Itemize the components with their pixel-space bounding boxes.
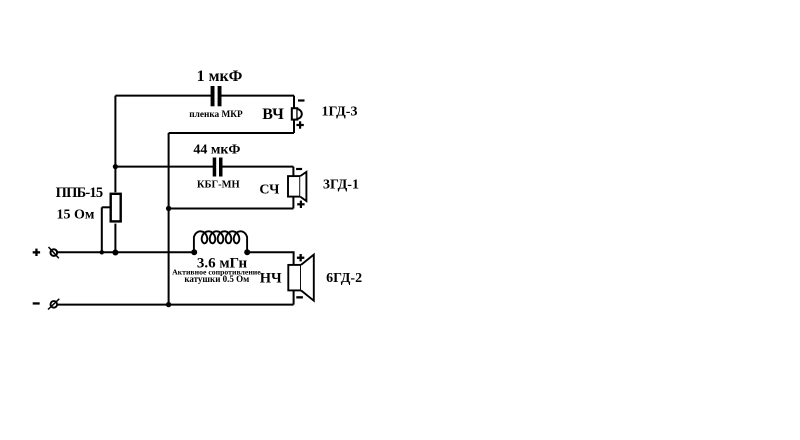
plus sign input (33, 249, 40, 256)
wiper vertical lead (101, 207, 103, 252)
tweeter minus sign (298, 99, 305, 101)
wire plus rail right (247, 252, 293, 265)
wire mid drop (292, 167, 294, 177)
minus terminal (48, 299, 59, 310)
node dot row1/row2 junction (113, 164, 118, 169)
inductor L1 coil (194, 231, 247, 252)
node dot coil right (244, 249, 250, 255)
svg-text:КБГ-МН: КБГ-МН (197, 180, 240, 191)
svg-text:44 мкФ: 44 мкФ (193, 143, 240, 158)
resistor R1 PPB-15 body (111, 194, 121, 222)
mid plus sign (297, 201, 304, 208)
svg-text:НЧ: НЧ (260, 271, 282, 287)
wire left vertical (row1 to resistor top) (114, 96, 116, 193)
svg-text:3ГД-1: 3ГД-1 (323, 178, 359, 193)
wire mid bottom (292, 197, 294, 209)
woofer NCh symbol (288, 255, 314, 301)
capacitor C1 1mkF plates (211, 86, 222, 106)
mid minus sign (296, 168, 302, 170)
svg-text:1ГД-3: 1ГД-3 (322, 105, 358, 120)
node dot bus/minus rail (166, 302, 171, 307)
wiper tick (102, 206, 110, 208)
wire bus vertical (168, 133, 170, 305)
woofer plus sign (297, 254, 304, 261)
node dot resistor lead/plus rail (112, 250, 118, 256)
node dot wiper/plus rail (100, 250, 104, 254)
plus terminal (49, 247, 59, 258)
svg-text:ВЧ: ВЧ (262, 106, 284, 123)
midrange SCh symbol (288, 172, 306, 201)
svg-text:6ГД-2: 6ГД-2 (326, 271, 362, 286)
wire tweeter bottom (293, 120, 295, 133)
svg-text:ППБ-15: ППБ-15 (56, 185, 103, 201)
wire plus rail left (57, 251, 194, 253)
wire row2 (to mid) (115, 166, 293, 168)
svg-text:СЧ: СЧ (259, 182, 280, 197)
svg-text:15 Ом: 15 Ом (57, 208, 95, 223)
svg-text:катушки 0.5 Ом: катушки 0.5 Ом (184, 274, 249, 284)
wire tweeter drop (293, 96, 295, 109)
svg-text:пленка МКР: пленка МКР (189, 110, 243, 120)
woofer minus sign (296, 296, 303, 298)
node dot coil left (191, 249, 197, 255)
tweeter VCh symbol (292, 108, 302, 119)
wire SCh return (169, 208, 294, 210)
node dot bus/SCh return (166, 206, 171, 211)
wire VCh return (169, 132, 294, 134)
resistor bottom lead (114, 224, 116, 253)
wire minus rail (57, 304, 294, 306)
minus sign input (33, 302, 40, 304)
wire row1 top (to tweeter) (115, 95, 294, 97)
tweeter plus sign (296, 121, 303, 128)
wire woofer bottom (293, 290, 295, 304)
capacitor C2 44mkF plates (213, 158, 223, 177)
svg-text:1 мкФ: 1 мкФ (197, 68, 243, 85)
